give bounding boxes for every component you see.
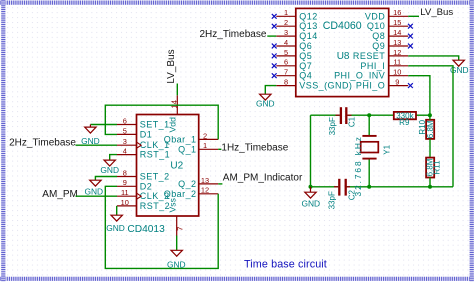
svg-text:9: 9 [395,78,399,87]
svg-text:33pF: 33pF [328,191,337,209]
svg-text:GND: GND [106,223,125,233]
svg-text:Q14: Q14 [299,31,317,41]
svg-text:U2: U2 [170,161,183,172]
svg-text:Qbar_2: Qbar_2 [164,189,197,199]
svg-text:7: 7 [176,227,185,231]
svg-text:Q4: Q4 [299,71,312,81]
svg-text:5: 5 [123,126,127,135]
svg-text:CD4013: CD4013 [127,224,165,235]
svg-text:2: 2 [284,18,288,27]
svg-text:SET_2: SET_2 [140,172,170,182]
svg-text:Q_2: Q_2 [178,179,196,189]
svg-text:2Hz_Timebase: 2Hz_Timebase [9,138,76,149]
svg-text:Q9: Q9 [372,41,385,51]
svg-text:D1: D1 [140,129,152,139]
svg-text:4: 4 [284,38,288,47]
svg-text:Q8: Q8 [372,31,385,41]
svg-text:8: 8 [123,168,127,177]
svg-text:Q10: Q10 [367,21,385,31]
svg-text:U8: U8 [337,51,350,62]
svg-text:RST_2: RST_2 [140,201,170,211]
svg-text:Vdd: Vdd [168,117,178,133]
svg-text:12: 12 [393,48,401,57]
svg-text:1: 1 [284,8,288,17]
svg-text:15: 15 [393,18,401,27]
svg-text:Q6: Q6 [299,41,312,51]
svg-text:Q7: Q7 [299,61,312,71]
svg-text:R11: R11 [432,160,441,175]
svg-text:12: 12 [201,186,209,195]
svg-text:PHI_I: PHI_I [360,61,385,71]
svg-text:11: 11 [121,188,129,197]
svg-text:GND: GND [84,186,103,196]
svg-text:RESET: RESET [353,51,385,61]
svg-text:Y1: Y1 [382,144,391,154]
svg-text:10: 10 [121,198,129,207]
svg-text:C1: C1 [347,116,356,127]
svg-text:CD4060: CD4060 [323,20,362,32]
svg-text:SET_1: SET_1 [140,120,170,130]
svg-text:7: 7 [284,68,288,77]
svg-text:14: 14 [169,100,178,108]
svg-text:LV_Bus: LV_Bus [166,49,177,83]
svg-text:AM_PM_Indicator: AM_PM_Indicator [223,172,303,183]
svg-text:2Hz_Timebase: 2Hz_Timebase [200,29,267,40]
svg-text:GND: GND [301,199,320,209]
svg-text:PHI_O_INV: PHI_O_INV [334,71,385,81]
svg-text:4: 4 [123,147,127,156]
svg-text:10: 10 [393,68,401,77]
svg-text:16: 16 [393,8,401,17]
svg-text:VDD: VDD [365,11,385,21]
svg-text:Q13: Q13 [299,21,317,31]
svg-text:13: 13 [201,176,209,185]
svg-text:6: 6 [123,116,127,125]
svg-text:Time base circuit: Time base circuit [244,259,327,271]
svg-text:9: 9 [123,178,127,187]
svg-text:LV_Bus: LV_Bus [420,7,453,18]
svg-text:6: 6 [284,58,288,67]
svg-text:Q12: Q12 [299,11,317,21]
svg-text:R9: R9 [399,118,410,127]
svg-text:PHI_O: PHI_O [356,81,385,91]
svg-text:Q_1: Q_1 [178,144,196,154]
svg-text:Q5: Q5 [299,51,312,61]
svg-text:1: 1 [203,141,207,150]
svg-text:14: 14 [393,28,401,37]
svg-text:RST_1: RST_1 [140,150,170,160]
svg-text:Qbar_1: Qbar_1 [164,134,197,144]
svg-text:3: 3 [284,28,288,37]
svg-text:GND: GND [100,165,119,175]
svg-text:GND: GND [256,99,275,109]
svg-text:D2: D2 [140,181,152,191]
svg-text:GND: GND [167,259,186,269]
svg-text:6.8M: 6.8M [426,120,435,138]
svg-text:2: 2 [203,131,207,140]
svg-text:33pF: 33pF [328,117,337,135]
svg-text:Vss: Vss [168,198,178,212]
svg-text:VSS_(GND): VSS_(GND) [299,81,352,91]
svg-text:13: 13 [393,38,401,47]
svg-text:5: 5 [284,48,288,57]
svg-text:1Hz_Timebase: 1Hz_Timebase [221,143,288,154]
svg-text:11: 11 [393,58,401,67]
svg-text:32.768 kHz: 32.768 kHz [353,135,363,196]
svg-text:3: 3 [123,137,127,146]
svg-text:AM_PM: AM_PM [42,189,78,200]
svg-text:8: 8 [284,78,288,87]
